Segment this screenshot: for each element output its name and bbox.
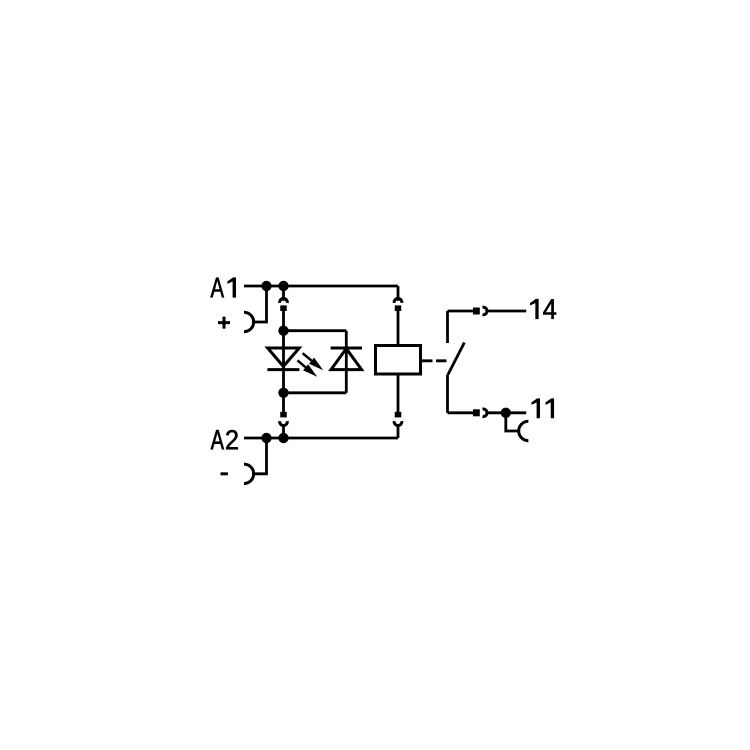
wire socket to A2 rail <box>282 424 285 438</box>
terminal label 11 <box>532 399 554 418</box>
LED emission arrow upper <box>303 353 324 370</box>
plug connector pin (coil branch bottom) <box>395 412 402 418</box>
LED D1 triangle <box>268 348 300 366</box>
label + <box>218 317 230 329</box>
wire diode branch drop <box>345 331 348 393</box>
wire coil branch from A1 corner <box>397 286 400 301</box>
wire socket to A2 rail right end <box>397 424 400 438</box>
wire pin to coil <box>397 311 400 346</box>
wire contact common horizontal <box>448 411 474 414</box>
wire contact 14 fixed stub <box>446 311 449 343</box>
node LED top <box>278 326 288 336</box>
wire LED loop top <box>284 329 347 332</box>
node terminal 11 junction <box>501 408 511 418</box>
wire pin to LED <box>282 311 285 413</box>
node A2 junction right <box>278 433 288 443</box>
node A1 junction right <box>278 281 288 291</box>
plug connector pin (coil branch top) <box>395 305 402 311</box>
wire to terminal 11 <box>487 411 526 414</box>
terminal label 14 <box>530 299 556 319</box>
LED D1 cathode bar <box>267 368 299 371</box>
plug connector pin (14) <box>473 308 480 315</box>
terminal label A1 <box>211 278 236 298</box>
wire coil to bottom pin <box>397 374 400 412</box>
wire A1 rail <box>244 285 398 288</box>
plug connector socket (coil branch top) <box>394 298 402 302</box>
node A1 junction left <box>261 281 271 291</box>
diode D2 cathode bar <box>331 347 362 350</box>
wire from A2 node down to minus clamp <box>252 438 267 474</box>
cage clamp terminal + <box>244 312 254 331</box>
actuation dashed link coil to contact <box>422 359 448 362</box>
cage clamp terminal 11 <box>519 421 529 440</box>
node LED bottom <box>278 388 288 398</box>
plug connector pin (LED branch bottom) <box>280 412 287 418</box>
label - <box>221 472 228 475</box>
plug connector pin (11) <box>473 409 480 416</box>
wire LED branch upper <box>282 286 285 301</box>
wire LED loop bottom <box>284 391 347 394</box>
wire to terminal 14 <box>487 310 526 313</box>
wire A2 rail <box>244 437 398 440</box>
plug connector pin (LED branch top) <box>280 305 287 311</box>
plug connector socket (coil branch bottom) <box>394 421 402 425</box>
relay coil K1 <box>376 346 421 375</box>
wire from node 11 down to clamp <box>506 413 519 431</box>
plug connector socket (14) <box>483 307 487 315</box>
wire contact common vertical <box>446 375 449 413</box>
node A2 junction left <box>261 433 271 443</box>
wire from A1 node down to plus clamp <box>252 286 267 322</box>
contact blade <box>448 343 464 375</box>
terminal label A2 <box>211 430 238 449</box>
plug connector socket (11) <box>483 409 487 417</box>
LED emission arrow lower <box>298 360 318 376</box>
wire contact 14 horizontal <box>448 310 474 313</box>
plug connector socket (LED branch top) <box>280 298 288 302</box>
diode D2 triangle <box>331 349 362 370</box>
cage clamp terminal - <box>244 464 254 483</box>
plug connector socket (LED branch bottom) <box>280 421 288 425</box>
